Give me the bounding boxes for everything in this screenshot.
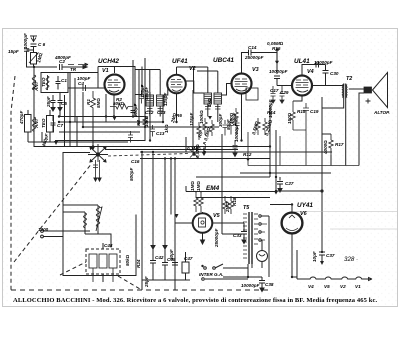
capacitor C10 — [128, 131, 133, 143]
svg-text:T5: T5 — [243, 205, 250, 211]
resistor R 1MO pair at EM4 — [194, 193, 203, 212]
wire T3 to V3 — [208, 84, 232, 123]
capacitor C37 10pF — [319, 191, 325, 265]
capacitor C27 — [277, 177, 283, 192]
antenna — [30, 36, 37, 42]
capacitor C4 100pF — [83, 85, 86, 92]
capacitor C33 25000pF — [241, 223, 247, 244]
svg-text:10000pF: 10000pF — [234, 123, 239, 142]
wire T2 secondary loop — [346, 89, 364, 166]
svg-text:R16: R16 — [272, 46, 281, 51]
svg-text:V4: V4 — [307, 69, 314, 75]
switch INTER G.A. — [202, 264, 248, 280]
svg-text:V3: V3 — [252, 67, 259, 73]
wire: dashed diagonal to tuning gang — [14, 163, 92, 262]
wire V1 plate to T1 — [98, 67, 160, 116]
wire V6 taps — [261, 224, 267, 240]
oscillator coil L4 — [96, 205, 102, 231]
resistor R5 0.5MO — [197, 122, 201, 140]
resistor R1 — [91, 91, 96, 117]
wire EM4 connections — [175, 186, 276, 244]
capacitor 50pF — [172, 251, 178, 280]
svg-text:V2: V2 — [189, 66, 196, 72]
svg-text:C7: C7 — [57, 123, 63, 128]
capacitor C19 — [303, 103, 309, 117]
svg-text:ALTOP.: ALTOP. — [373, 110, 390, 115]
wire: dashed diagonal from RF box to chassis — [118, 276, 140, 289]
svg-text:15pF: 15pF — [8, 49, 19, 54]
svg-text:V2: V2 — [340, 284, 346, 289]
svg-text:25000pF: 25000pF — [214, 228, 219, 248]
ground arrow — [54, 141, 58, 145]
oscillator coil L5 — [84, 212, 87, 228]
resistor R4 10kO — [143, 114, 147, 128]
svg-text:V6: V6 — [300, 211, 308, 217]
ground bus bottom left — [142, 279, 190, 281]
tube V1 UCH42 — [105, 75, 125, 95]
svg-text:25pF: 25pF — [144, 276, 149, 288]
wire node ant junction — [26, 67, 34, 147]
wire V4 grid — [291, 85, 293, 87]
capacitor C42 — [150, 250, 156, 280]
svg-text:1kΩ: 1kΩ — [164, 124, 169, 133]
svg-text:V1: V1 — [355, 284, 361, 289]
svg-text:5MΩ: 5MΩ — [96, 98, 101, 108]
junction dots — [91, 116, 278, 218]
wire TR arrow — [68, 63, 88, 68]
svg-text:10kΩ: 10kΩ — [144, 115, 149, 127]
svg-text:R15: R15 — [297, 109, 306, 114]
wire osc connections — [63, 153, 136, 276]
coil L2 — [33, 116, 36, 132]
svg-text:10pF: 10pF — [312, 251, 317, 262]
svg-text:T2: T2 — [346, 76, 352, 82]
wire 480pF drop — [28, 132, 128, 142]
wire V3 cathode down — [241, 94, 243, 141]
svg-text:UY41: UY41 — [297, 202, 313, 209]
svg-text:EM4: EM4 — [206, 185, 220, 192]
svg-text:300pF: 300pF — [218, 114, 223, 127]
wire V2 cathode down — [176, 93, 178, 122]
trimmer C15 — [190, 150, 198, 158]
resistor R17 4000O — [322, 134, 333, 166]
wire T2 bottom feed — [322, 97, 344, 191]
capacitor C29 — [280, 86, 285, 103]
capacitor C17 — [271, 86, 276, 103]
svg-text:C4: C4 — [78, 81, 84, 86]
wire V6 anode — [270, 205, 297, 278]
svg-text:10000pF: 10000pF — [314, 60, 333, 65]
svg-text:C2: C2 — [59, 59, 65, 64]
svg-text:ALLOCCHIO BACCHINI - Mod. 326.: ALLOCCHIO BACCHINI - Mod. 326. Ricevitor… — [13, 297, 378, 304]
resistor R8 — [210, 120, 214, 136]
svg-text:TEO: TEO — [41, 77, 46, 87]
box medium-wave coil — [25, 110, 32, 142]
resistor R14 0.25MO — [263, 118, 267, 135]
svg-text:R12: R12 — [243, 152, 252, 157]
capacitor C28 10000pF — [274, 64, 292, 86]
capacitor C21 — [223, 120, 228, 136]
coil TEO primary — [46, 75, 49, 90]
terminals 1200 phono — [41, 230, 90, 238]
speaker ALTOP — [364, 73, 388, 108]
wire AF bus — [196, 105, 323, 192]
resistor R9 150O — [234, 108, 238, 124]
svg-text:C30: C30 — [330, 71, 339, 76]
svg-text:C13: C13 — [157, 110, 166, 115]
wires from gruppo AF down — [93, 268, 113, 282]
svg-text:C38: C38 — [265, 282, 274, 287]
svg-text:2MΩ: 2MΩ — [225, 202, 230, 213]
transformer T2 output — [342, 84, 347, 99]
svg-text:C48: C48 — [104, 243, 113, 248]
svg-text:1200: 1200 — [38, 227, 49, 232]
svg-text:125pF: 125pF — [163, 93, 168, 106]
ground arrows cluster — [91, 147, 167, 250]
svg-text:50pF: 50pF — [169, 249, 174, 260]
resistor R7 100kO — [203, 118, 207, 135]
variable resistor 1MO — [29, 53, 38, 68]
svg-text:FILA: FILA — [202, 142, 207, 152]
svg-text:C19: C19 — [310, 109, 319, 114]
svg-text:10000pF: 10000pF — [269, 69, 288, 74]
svg-text:328 ·: 328 · — [344, 256, 358, 263]
svg-text:1MΩ: 1MΩ — [196, 181, 201, 191]
wire grid V1 — [68, 73, 104, 89]
tube V3 UBC41 — [232, 74, 252, 94]
wire bus rows left-mid — [34, 117, 332, 159]
tuning gang section 1 — [88, 144, 108, 181]
tube V4 UL41 — [292, 76, 312, 96]
trimmer C20 C21 plates — [205, 107, 221, 110]
svg-text:10000pF: 10000pF — [268, 99, 273, 118]
svg-text:V4: V4 — [308, 284, 314, 289]
svg-text:150Ω: 150Ω — [287, 112, 292, 124]
IF transformer T3 winding P — [204, 93, 212, 104]
capacitor C5 25pF — [58, 92, 63, 117]
svg-text:INTER G.A.: INTER G.A. — [199, 272, 224, 277]
wire V3 top to C14 — [242, 53, 249, 74]
wire faint heater run right — [292, 212, 397, 230]
svg-text:470pF: 470pF — [19, 111, 24, 125]
svg-text:C33: C33 — [233, 233, 242, 238]
svg-text:TEO: TEO — [41, 118, 46, 128]
svg-text:300pF: 300pF — [133, 104, 138, 117]
transformer T5 power — [243, 212, 261, 264]
svg-text:C 6: C 6 — [38, 42, 46, 47]
capacitor C24 10000pF — [233, 140, 238, 157]
wire: dashed diagonal to RF unit box — [60, 262, 86, 275]
svg-text:100kΩ: 100kΩ — [199, 110, 204, 124]
svg-text:R14: R14 — [267, 110, 276, 115]
RF unit dashed box gruppo AF — [86, 243, 120, 282]
coil L3 box — [47, 110, 54, 142]
resistor R15 150O cathode V4 — [291, 101, 295, 126]
svg-text:150Ω: 150Ω — [229, 112, 234, 124]
capacitor C23 — [235, 118, 240, 135]
heater chain filament line — [297, 250, 372, 281]
diode load box V3 — [246, 88, 258, 100]
svg-text:50kΩ: 50kΩ — [125, 254, 130, 266]
resistor R2 50kO — [110, 104, 133, 109]
potentiometer R16 0.05MO — [265, 47, 279, 65]
svg-text:R6: R6 — [176, 113, 182, 118]
capacitor C6 1000pF — [31, 44, 37, 53]
svg-text:1kΩ: 1kΩ — [207, 98, 212, 107]
box antenna transformer — [41, 73, 68, 93]
svg-text:C12: C12 — [145, 110, 154, 115]
capacitor C1 — [56, 76, 61, 90]
wire V4 top circuit — [302, 65, 318, 76]
capacitor C7 — [51, 116, 56, 132]
svg-text:C16: C16 — [131, 159, 140, 164]
svg-text:UF41: UF41 — [172, 58, 188, 65]
svg-text:ANT: ANT — [34, 80, 39, 92]
svg-text:UL41: UL41 — [294, 58, 310, 65]
capacitor C3 — [51, 95, 56, 111]
svg-text:C29: C29 — [280, 90, 289, 95]
wire T1 to V2 grid — [150, 84, 168, 117]
tube V6 UY41 rectifier — [282, 213, 303, 234]
capacitor C22 — [229, 118, 234, 135]
capacitor C30 — [302, 64, 319, 66]
capacitor C11 — [139, 92, 144, 104]
IF transformer T1 winding P — [146, 95, 154, 106]
wire V2 plate to T3 — [177, 67, 218, 93]
capacitor C38 10000pF — [223, 268, 265, 292]
svg-text:125pF: 125pF — [140, 85, 145, 98]
svg-text:C14: C14 — [248, 45, 257, 50]
svg-text:1MΩ: 1MΩ — [190, 181, 195, 191]
diagonal dashed shaft — [108, 154, 188, 157]
svg-text:C37: C37 — [326, 253, 335, 258]
capacitor C13 — [150, 125, 155, 137]
svg-text:UCH42: UCH42 — [98, 58, 119, 65]
capacitor 10000pF top right — [316, 62, 329, 86]
capacitor 15pF — [24, 49, 34, 67]
wire V1 cathode down — [113, 94, 115, 116]
svg-text:R1: R1 — [86, 99, 91, 105]
pilot lamp — [257, 251, 268, 262]
wire V4 cathode down — [293, 96, 302, 102]
svg-text:C5: C5 — [61, 101, 67, 106]
resistor R18 2MO — [223, 196, 233, 214]
svg-text:TR: TR — [70, 67, 77, 72]
wire: dashed chassis bottom — [11, 289, 272, 291]
svg-text:R17: R17 — [335, 142, 344, 147]
wire verticals mid — [65, 58, 194, 290]
svg-text:125pF: 125pF — [189, 113, 194, 126]
resistor R13 0.5MO — [256, 118, 260, 135]
capacitor C2 4800pF — [34, 64, 68, 70]
svg-text:500pF: 500pF — [129, 168, 134, 181]
tube V5 EM4 magic eye — [193, 213, 213, 233]
wire bus right — [290, 172, 331, 174]
svg-text:C42: C42 — [155, 255, 164, 260]
svg-text:50kΩ: 50kΩ — [113, 101, 125, 106]
trimmer C12 C13 plates — [147, 109, 163, 112]
capacitor C14 25000pF — [249, 50, 266, 56]
tube V2 UF41 — [167, 75, 186, 94]
svg-text:V5: V5 — [213, 213, 221, 219]
svg-text:UBC41: UBC41 — [213, 57, 234, 64]
svg-text:C1: C1 — [61, 78, 67, 83]
svg-text:C27: C27 — [285, 181, 294, 186]
svg-text:10000pF: 10000pF — [241, 283, 260, 288]
capacitor C47 box — [182, 252, 189, 280]
svg-text:4000Ω: 4000Ω — [323, 140, 328, 155]
IF transformer T1 winding S — [157, 95, 165, 106]
svg-text:25000pF: 25000pF — [244, 55, 264, 60]
svg-text:V5: V5 — [324, 284, 330, 289]
svg-text:C47: C47 — [184, 256, 193, 261]
capacitor 300pF — [131, 107, 136, 117]
wire power section — [222, 134, 269, 277]
svg-text:R24: R24 — [136, 259, 141, 268]
svg-text:V1: V1 — [102, 68, 109, 74]
wire: dashed chassis boundary vertical left — [11, 76, 15, 290]
svg-text:1000pF: 1000pF — [23, 33, 28, 49]
svg-text:0,5MΩ: 0,5MΩ — [195, 144, 200, 158]
wire V4 plate to T2 — [312, 84, 344, 86]
capacitor C45 — [162, 250, 168, 280]
svg-text:25pF: 25pF — [46, 96, 51, 108]
wire AGC network — [248, 117, 359, 166]
coil L1 ANT — [32, 74, 36, 92]
IF transformer T3 winding S — [214, 93, 222, 104]
svg-text:ANT: ANT — [34, 117, 39, 129]
extra components mid — [93, 86, 359, 282]
svg-text:R18: R18 — [232, 197, 237, 206]
svg-text:C17: C17 — [270, 88, 279, 93]
